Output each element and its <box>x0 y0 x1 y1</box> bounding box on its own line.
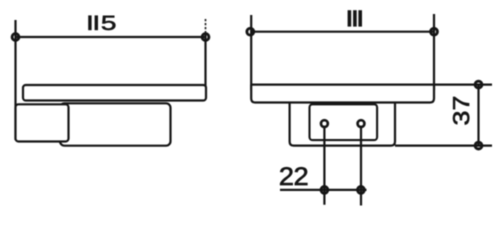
shelf front <box>251 85 434 103</box>
wire 37 dimension line <box>477 85 479 146</box>
label 22 <box>280 167 307 185</box>
wire left extension / shelf left edge <box>250 15 252 90</box>
node 22 left circle <box>321 187 328 194</box>
wire right extension line <box>205 19 207 33</box>
node 22 right circle <box>358 187 365 194</box>
node left hole <box>321 120 328 127</box>
wire left hole leader <box>323 124 325 205</box>
node right hole <box>358 120 365 127</box>
label 37 <box>453 97 469 125</box>
wire 22 dimension line <box>280 189 367 191</box>
node 37 bottom circle <box>475 142 482 149</box>
body holder profile <box>60 103 171 145</box>
wire shelf top edge + extension to 37 dim <box>251 83 492 85</box>
node left dim circle <box>12 34 19 41</box>
node right dim circle <box>431 28 438 35</box>
node left dim circle <box>247 28 254 35</box>
bracket front <box>290 102 395 146</box>
node right dim circle <box>202 34 209 41</box>
wire dimension line 111 <box>250 31 434 33</box>
label 111 <box>348 10 362 26</box>
wire wall line (left extension) <box>14 20 16 140</box>
node 37 top circle <box>475 81 482 88</box>
wire dimension line 115 <box>16 36 206 38</box>
wire right extension / shelf right edge <box>433 14 435 90</box>
wire right hole leader <box>360 124 362 206</box>
shelf side profile <box>23 85 206 101</box>
bracket wall plate profile <box>16 104 69 141</box>
wire bracket bottom extension to 37 dim <box>395 145 492 147</box>
plate inner rect <box>310 104 378 140</box>
label 115 <box>88 15 115 30</box>
